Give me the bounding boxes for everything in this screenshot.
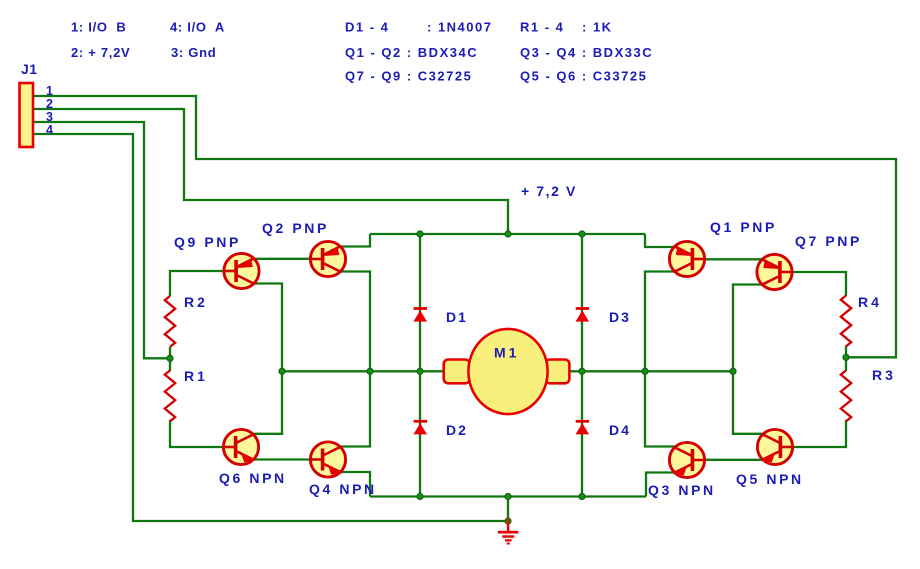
svg-text:Q7 PNP: Q7 PNP	[795, 233, 862, 249]
svg-text:J1: J1	[21, 61, 38, 77]
svg-text:: 1N4007: : 1N4007	[427, 20, 492, 35]
svg-text:Q3 - Q4 : BDX33C: Q3 - Q4 : BDX33C	[520, 45, 653, 60]
svg-text:Q2 PNP: Q2 PNP	[262, 220, 329, 236]
svg-text:R3: R3	[872, 367, 896, 383]
svg-text:Q4 NPN: Q4 NPN	[309, 481, 377, 497]
svg-text:2: + 7,2V: 2: + 7,2V	[71, 45, 130, 60]
svg-text:: 1K: : 1K	[582, 20, 613, 35]
svg-text:+ 7,2 V: + 7,2 V	[521, 183, 577, 199]
svg-text:4: I/O A: 4: I/O A	[170, 20, 225, 35]
svg-text:R1: R1	[184, 368, 208, 384]
svg-text:D4: D4	[609, 422, 631, 438]
svg-text:Q5 - Q6 : C33725: Q5 - Q6 : C33725	[520, 69, 647, 84]
svg-text:1: I/O B: 1: I/O B	[71, 20, 126, 35]
svg-text:D1: D1	[446, 309, 468, 325]
svg-text:3: 3	[46, 110, 53, 124]
svg-text:M1: M1	[494, 345, 519, 361]
svg-text:D3: D3	[609, 309, 631, 325]
svg-text:Q7 - Q9 : C32725: Q7 - Q9 : C32725	[345, 69, 472, 84]
svg-text:2: 2	[46, 97, 53, 111]
svg-text:Q5 NPN: Q5 NPN	[736, 471, 804, 487]
svg-text:Q6 NPN: Q6 NPN	[219, 470, 287, 486]
svg-text:Q9 PNP: Q9 PNP	[174, 234, 241, 250]
svg-text:Q1 - Q2 : BDX34C: Q1 - Q2 : BDX34C	[345, 45, 478, 60]
svg-text:D2: D2	[446, 422, 468, 438]
svg-text:4: 4	[46, 123, 53, 137]
svg-text:3: Gnd: 3: Gnd	[171, 45, 216, 60]
svg-text:1: 1	[46, 84, 53, 98]
svg-text:D1 - 4: D1 - 4	[345, 20, 389, 35]
svg-text:Q3 NPN: Q3 NPN	[648, 482, 716, 498]
svg-text:R1 - 4: R1 - 4	[520, 20, 564, 35]
svg-text:R2: R2	[184, 294, 208, 310]
svg-text:R4: R4	[858, 294, 882, 310]
svg-text:Q1 PNP: Q1 PNP	[710, 219, 777, 235]
